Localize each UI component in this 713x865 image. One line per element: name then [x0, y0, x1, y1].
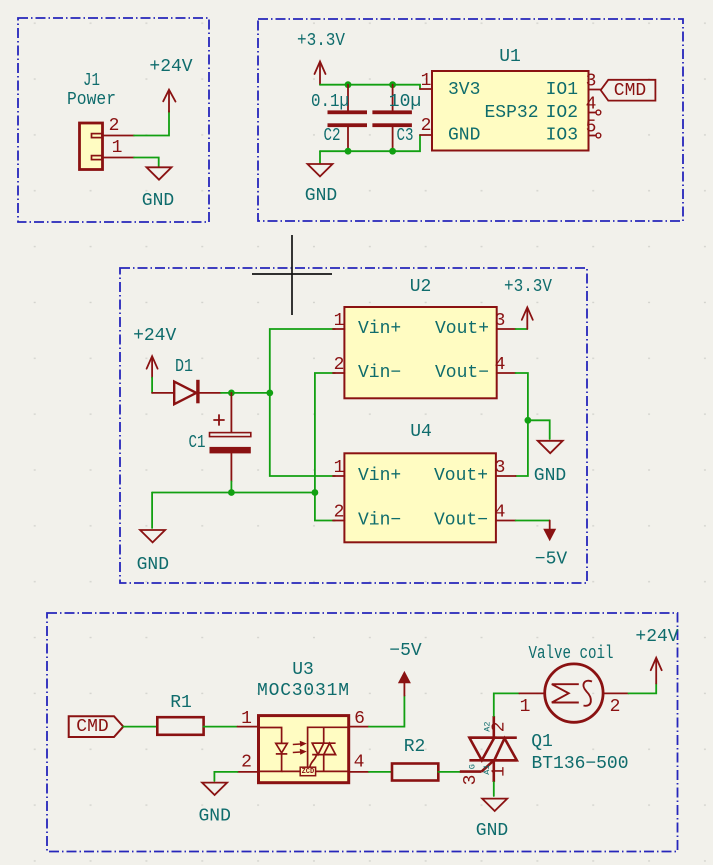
U2 pin 2 [333, 372, 344, 374]
svg-text:ESP32: ESP32 [484, 103, 538, 123]
ground symbol [140, 530, 165, 542]
U2 pin 3 [497, 328, 516, 330]
power symbol -5V up [398, 671, 411, 696]
svg-text:C2: C2 [324, 126, 341, 146]
U3 pin 2 [238, 771, 259, 773]
junction [312, 489, 319, 496]
wire A1 to ground [493, 782, 495, 796]
svg-text:+24V: +24V [635, 627, 678, 647]
U3 internal light arrows [293, 742, 305, 754]
svg-text:1: 1 [421, 71, 432, 91]
U4 pin 3 [496, 475, 516, 477]
ground symbol [538, 441, 563, 453]
power symbol +24V [147, 356, 158, 378]
wire U2 pin3 to +3.3V [516, 328, 528, 330]
junction [525, 417, 532, 424]
svg-text:4: 4 [354, 753, 365, 773]
svg-text:2: 2 [334, 503, 345, 523]
U4 pin 4 [496, 520, 516, 522]
svg-text:+24V: +24V [149, 57, 192, 77]
svg-text:D1: D1 [175, 357, 193, 377]
svg-text:ZCD: ZCD [302, 768, 315, 776]
ground symbol [202, 783, 227, 795]
wire pin1 to GND [134, 158, 159, 167]
wire U2 pin4 to gnd junction [516, 373, 528, 420]
U1 pin 2 [420, 134, 432, 136]
wire R1 to U3 pin1 [204, 726, 238, 728]
ground symbol [147, 167, 172, 179]
svg-text:GND: GND [448, 126, 480, 146]
svg-text:3V3: 3V3 [448, 80, 480, 100]
svg-text:5: 5 [586, 118, 597, 138]
global label CMD [601, 80, 656, 101]
svg-text:GND: GND [137, 555, 169, 575]
IC U1 body [432, 71, 589, 151]
svg-text:R2: R2 [404, 737, 426, 757]
capacitor C2 [328, 85, 368, 152]
wire diode to junctions [221, 392, 270, 394]
diode D1 [152, 380, 221, 404]
U2 pin 1 [333, 328, 344, 330]
svg-text:3: 3 [495, 458, 506, 478]
svg-text:R1: R1 [170, 693, 192, 713]
svg-text:−5V: −5V [535, 549, 568, 569]
svg-text:U3: U3 [292, 660, 314, 680]
svg-text:J1: J1 [83, 71, 100, 91]
capacitor C1 polarized [210, 393, 251, 482]
svg-text:Q1: Q1 [531, 732, 553, 752]
svg-text:IO3: IO3 [546, 126, 578, 146]
svg-text:C3: C3 [397, 126, 414, 146]
capacitor C3 [372, 85, 412, 152]
U1 pin 4 with unconnected bubble [589, 112, 596, 114]
J1 pin 1 [103, 157, 134, 159]
wire C1 to bottom rail [230, 481, 232, 492]
wire coil to +24V [628, 684, 656, 694]
svg-text:2: 2 [610, 697, 621, 717]
wire U3 pin2 to ground [214, 772, 237, 781]
svg-text:GND: GND [476, 821, 508, 841]
U4 pin 2 [333, 520, 344, 522]
svg-text:CMD: CMD [76, 717, 108, 737]
wire U3 pin4 to R2 [369, 771, 392, 773]
wire junction to ground [528, 420, 550, 439]
junction [345, 81, 352, 88]
svg-text:GND: GND [142, 191, 174, 211]
wire U3 pin6 to -5V [369, 696, 405, 727]
svg-text:Vout−: Vout− [435, 363, 489, 383]
svg-text:U1: U1 [499, 47, 521, 67]
svg-text:Power: Power [67, 90, 116, 110]
wire up to U2 Vin+ [270, 329, 335, 393]
wire down to U4 Vin+ [270, 393, 335, 476]
svg-text:+3.3V: +3.3V [297, 31, 345, 51]
junction [228, 390, 235, 397]
wire rail to ground [151, 493, 153, 529]
wire U2 Vin- down [315, 373, 335, 493]
valve coil LS1 [519, 664, 628, 722]
power symbol +3.3V [522, 307, 533, 329]
sheet area box D (driver) [47, 613, 678, 852]
IC U2 body [344, 307, 496, 398]
power symbol +3.3V [315, 62, 326, 85]
svg-text:Vin+: Vin+ [358, 319, 401, 339]
svg-text:3: 3 [461, 775, 481, 786]
junction [389, 81, 396, 88]
U3 internal ZCD box [282, 767, 349, 776]
wire gnd rail [320, 135, 420, 151]
svg-text:C1: C1 [189, 433, 206, 453]
svg-text:IO1: IO1 [546, 80, 578, 100]
crosshair origin marker [252, 235, 332, 315]
U1 pin 5 with unconnected bubble [589, 135, 596, 137]
power symbol +24V [651, 658, 662, 684]
svg-text:CMD: CMD [614, 81, 646, 101]
U3 pin 4 [349, 771, 369, 773]
svg-text:1: 1 [241, 709, 252, 729]
svg-text:2: 2 [421, 116, 432, 136]
svg-text:Vin−: Vin− [358, 363, 401, 383]
junction [389, 148, 396, 155]
sheet area box C (DC-DC) [120, 268, 587, 583]
power symbol +24V [163, 90, 175, 112]
svg-text:Valve coil: Valve coil [529, 644, 614, 664]
wire CMD to R1 [123, 726, 157, 728]
svg-text:10µ: 10µ [389, 92, 421, 112]
svg-text:BT136−500: BT136−500 [532, 754, 629, 774]
svg-text:GND: GND [534, 466, 566, 486]
ground symbol [482, 799, 507, 811]
svg-text:1: 1 [112, 138, 123, 158]
svg-text:U4: U4 [410, 422, 432, 442]
triac Q1 [460, 716, 517, 782]
wire to U4 Vin- [315, 493, 335, 521]
U4 pin 1 [333, 475, 344, 477]
sheet area box A (power input) [18, 18, 209, 222]
svg-text:2: 2 [490, 721, 510, 732]
global label CMD [69, 716, 124, 737]
J1 pin 2 [103, 135, 134, 137]
power symbol -5V down [543, 521, 556, 542]
junction [228, 489, 235, 496]
svg-text:1: 1 [334, 311, 345, 331]
connector J1 [80, 123, 103, 170]
U1 pin 3 [589, 89, 602, 91]
svg-text:Vout+: Vout+ [434, 466, 488, 486]
svg-text:1: 1 [520, 697, 531, 717]
wire to ground [319, 151, 321, 163]
svg-text:3: 3 [495, 311, 506, 331]
svg-text:2: 2 [109, 116, 120, 136]
svg-text:1: 1 [334, 458, 345, 478]
svg-text:G: G [467, 764, 477, 769]
U1 pin 1 [420, 88, 432, 90]
svg-text:U2: U2 [410, 277, 432, 297]
resistor R2 [392, 764, 438, 781]
wire U4 pin4 to -5V [516, 520, 550, 522]
svg-text:IO2: IO2 [546, 103, 578, 123]
U3 pin 6 [349, 726, 369, 728]
svg-text:2: 2 [334, 355, 345, 375]
svg-text:3: 3 [586, 72, 597, 92]
U3 pin 1 [238, 726, 259, 728]
U2 pin 4 [497, 372, 516, 374]
bottom rail wire [152, 492, 315, 494]
svg-text:4: 4 [586, 95, 597, 115]
U3 internal LED [259, 728, 288, 772]
wire 3.3V rail [320, 85, 420, 89]
svg-text:4: 4 [495, 355, 506, 375]
wire to D1 [151, 378, 153, 393]
svg-text:6: 6 [354, 709, 365, 729]
svg-text:+24V: +24V [133, 326, 176, 346]
svg-text:GND: GND [198, 807, 230, 827]
resistor R1 [157, 717, 203, 735]
svg-text:MOC3031M: MOC3031M [257, 681, 349, 701]
svg-text:Vout+: Vout+ [435, 319, 489, 339]
ground symbol [308, 164, 333, 176]
junction [266, 390, 273, 397]
svg-text:GND: GND [305, 186, 337, 206]
sheet area box B (ESP32) [258, 19, 683, 221]
wire U4 pin3 up to gnd junction [516, 420, 528, 476]
wire A2 to valve coil [494, 693, 520, 716]
svg-text:2: 2 [241, 753, 252, 773]
svg-text:Vout−: Vout− [434, 511, 488, 531]
svg-text:Vin+: Vin+ [358, 466, 401, 486]
wire pin2 to +24V [134, 111, 169, 136]
svg-text:+3.3V: +3.3V [504, 277, 552, 297]
junction [345, 148, 352, 155]
wire R2 to gate [438, 771, 460, 773]
svg-text:0.1µ: 0.1µ [311, 92, 349, 112]
svg-text:−5V: −5V [389, 641, 422, 661]
IC U4 body [344, 453, 496, 542]
optocoupler U3 body [259, 716, 349, 783]
svg-text:4: 4 [495, 503, 506, 523]
svg-text:1: 1 [489, 766, 509, 777]
U3 internal triac [308, 727, 349, 771]
svg-text:Vin−: Vin− [358, 511, 401, 531]
